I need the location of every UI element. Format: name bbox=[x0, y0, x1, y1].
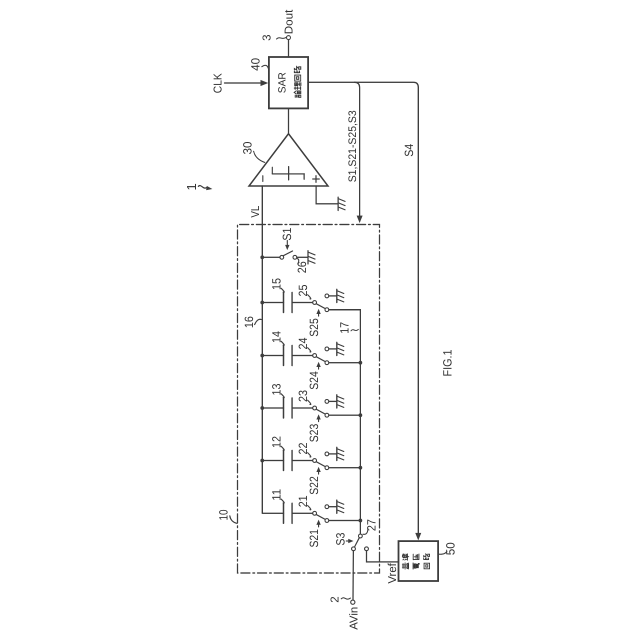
svg-text:1: 1 bbox=[184, 183, 199, 190]
svg-text:30: 30 bbox=[241, 141, 255, 154]
svg-text:S1,S21-S25,S3: S1,S21-S25,S3 bbox=[347, 110, 359, 182]
svg-text:17: 17 bbox=[338, 322, 352, 334]
svg-text:S1: S1 bbox=[280, 227, 294, 240]
svg-text:S24: S24 bbox=[307, 371, 321, 390]
svg-text:SAR: SAR bbox=[276, 72, 288, 93]
svg-text:26: 26 bbox=[295, 261, 309, 273]
svg-text:Dout: Dout bbox=[283, 9, 295, 34]
svg-text:3: 3 bbox=[262, 34, 274, 40]
svg-text:AVin: AVin bbox=[349, 607, 361, 630]
svg-text:S21: S21 bbox=[307, 529, 321, 548]
svg-text:VL: VL bbox=[250, 205, 262, 218]
svg-text:CLK: CLK bbox=[213, 73, 225, 93]
svg-text:10: 10 bbox=[216, 509, 230, 520]
svg-text:S25: S25 bbox=[307, 318, 321, 337]
svg-text:40: 40 bbox=[249, 58, 263, 71]
svg-text:27: 27 bbox=[365, 519, 379, 531]
svg-text:Vref: Vref bbox=[387, 562, 399, 583]
svg-text:S23: S23 bbox=[307, 423, 321, 442]
svg-text:S22: S22 bbox=[307, 476, 321, 495]
svg-text:2: 2 bbox=[330, 596, 342, 602]
svg-text:16: 16 bbox=[242, 316, 256, 328]
svg-text:S4: S4 bbox=[402, 144, 416, 157]
svg-text:FIG.1: FIG.1 bbox=[441, 349, 455, 376]
svg-text:S3: S3 bbox=[333, 532, 347, 545]
